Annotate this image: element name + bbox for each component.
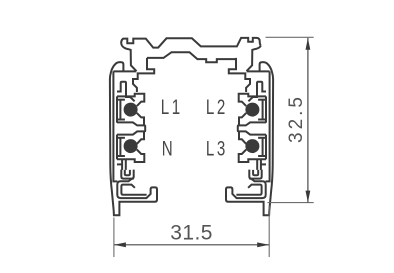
top outer contour with claws and hump [121, 38, 261, 48]
left extension line [113, 218, 115, 258]
svg-text:L3: L3 [206, 136, 228, 160]
label N [162, 136, 173, 160]
label L1 [161, 94, 183, 118]
right half of body (mirrored) [226, 46, 273, 215]
arrow down [306, 191, 311, 203]
vertical dimension line 32.5 [307, 38, 309, 203]
svg-text:32.5: 32.5 [286, 94, 307, 143]
svg-text:31.5: 31.5 [170, 221, 212, 244]
bottom extension line [268, 202, 314, 204]
arrow up [306, 38, 311, 50]
svg-text:L1: L1 [161, 94, 183, 118]
svg-text:N: N [162, 136, 173, 160]
left half of body [110, 46, 157, 215]
horizontal dimension line 31.5 [114, 244, 269, 246]
svg-text:L2: L2 [206, 94, 228, 118]
right extension line [268, 206, 270, 258]
arrow left [114, 242, 126, 247]
texts [161, 94, 228, 160]
dimension lines [114, 37, 314, 257]
top extension line [266, 36, 314, 38]
label L3 [206, 136, 228, 160]
arrow right [257, 242, 269, 247]
inner ceiling [147, 52, 236, 62]
label L2 [206, 94, 228, 118]
